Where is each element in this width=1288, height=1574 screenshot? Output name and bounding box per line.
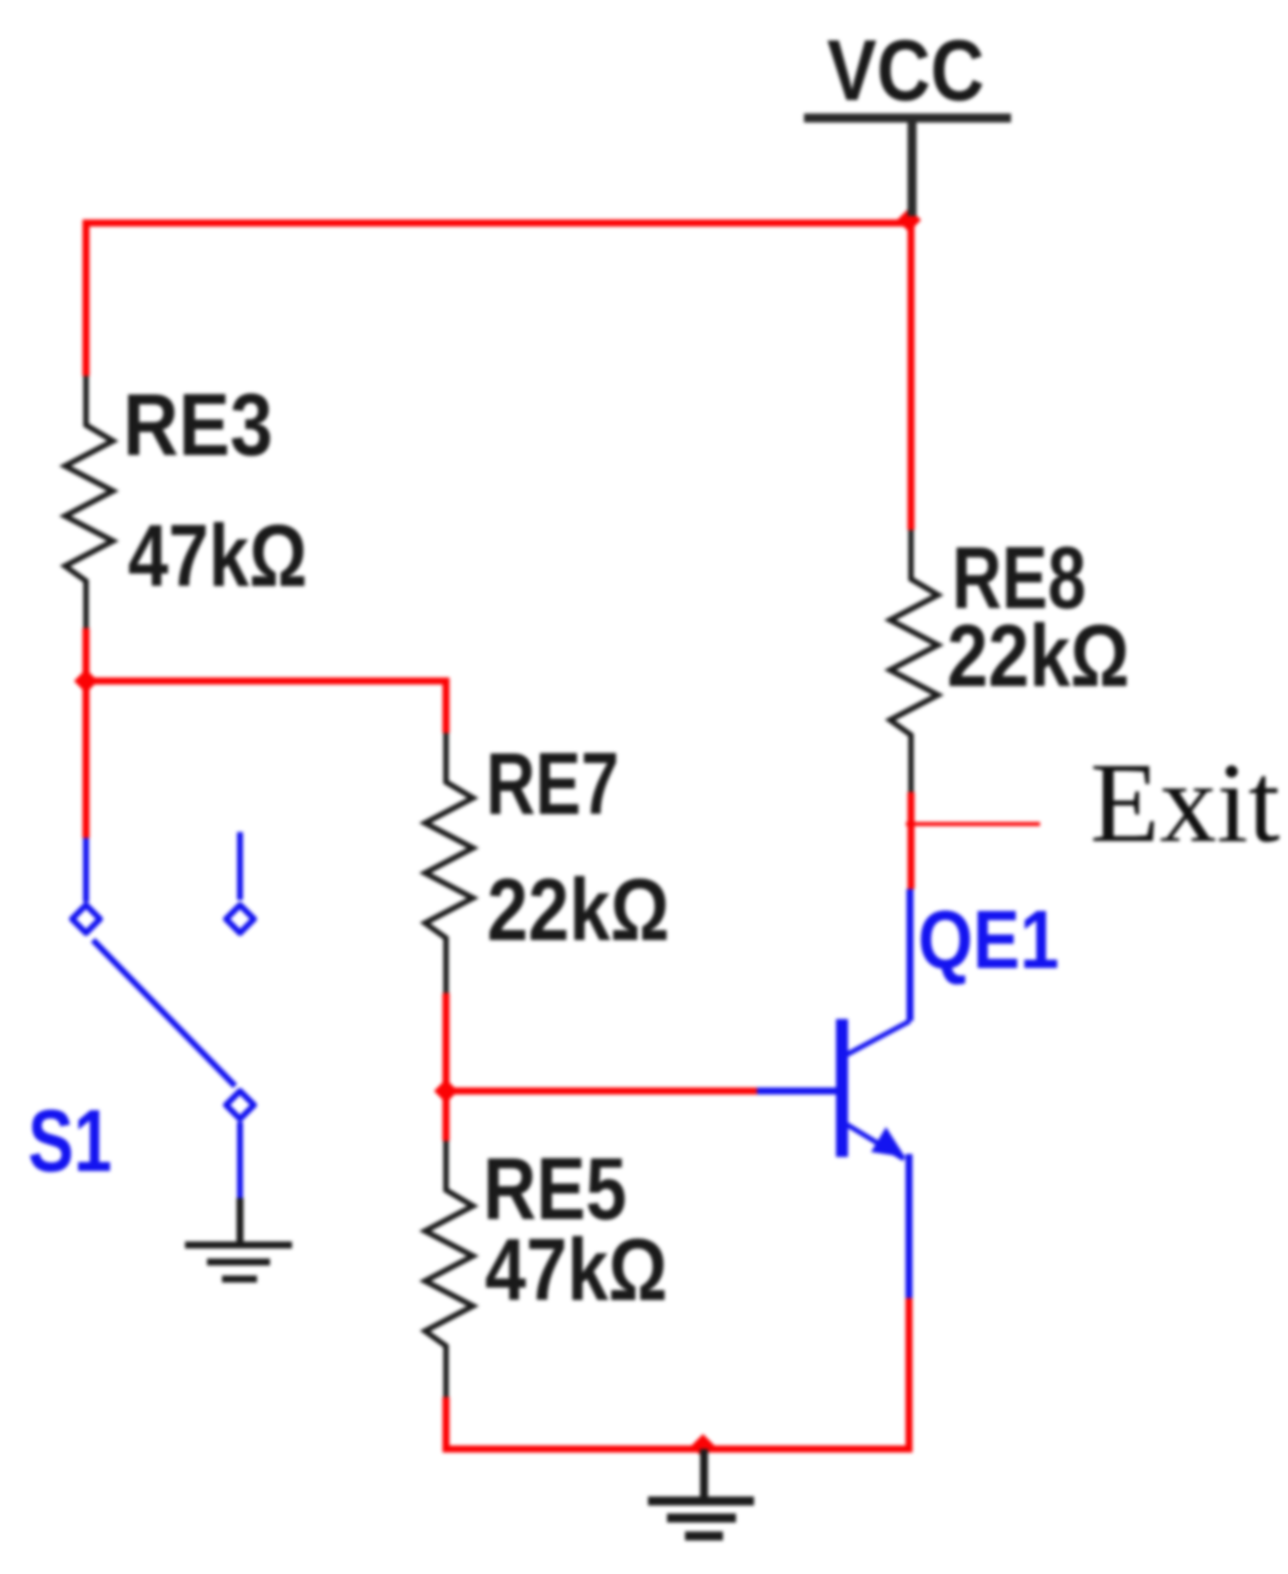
svg-text:RE3: RE3 [123,375,273,474]
svg-text:QE1: QE1 [918,894,1059,987]
svg-text:47kΩ: 47kΩ [128,507,307,605]
svg-text:Exit: Exit [1090,739,1280,866]
svg-text:VCC: VCC [827,23,984,119]
svg-text:22kΩ: 22kΩ [947,607,1130,706]
svg-text:47kΩ: 47kΩ [485,1221,668,1320]
svg-text:S1: S1 [28,1092,112,1190]
svg-text:22kΩ: 22kΩ [487,861,670,960]
svg-text:RE7: RE7 [486,735,619,833]
